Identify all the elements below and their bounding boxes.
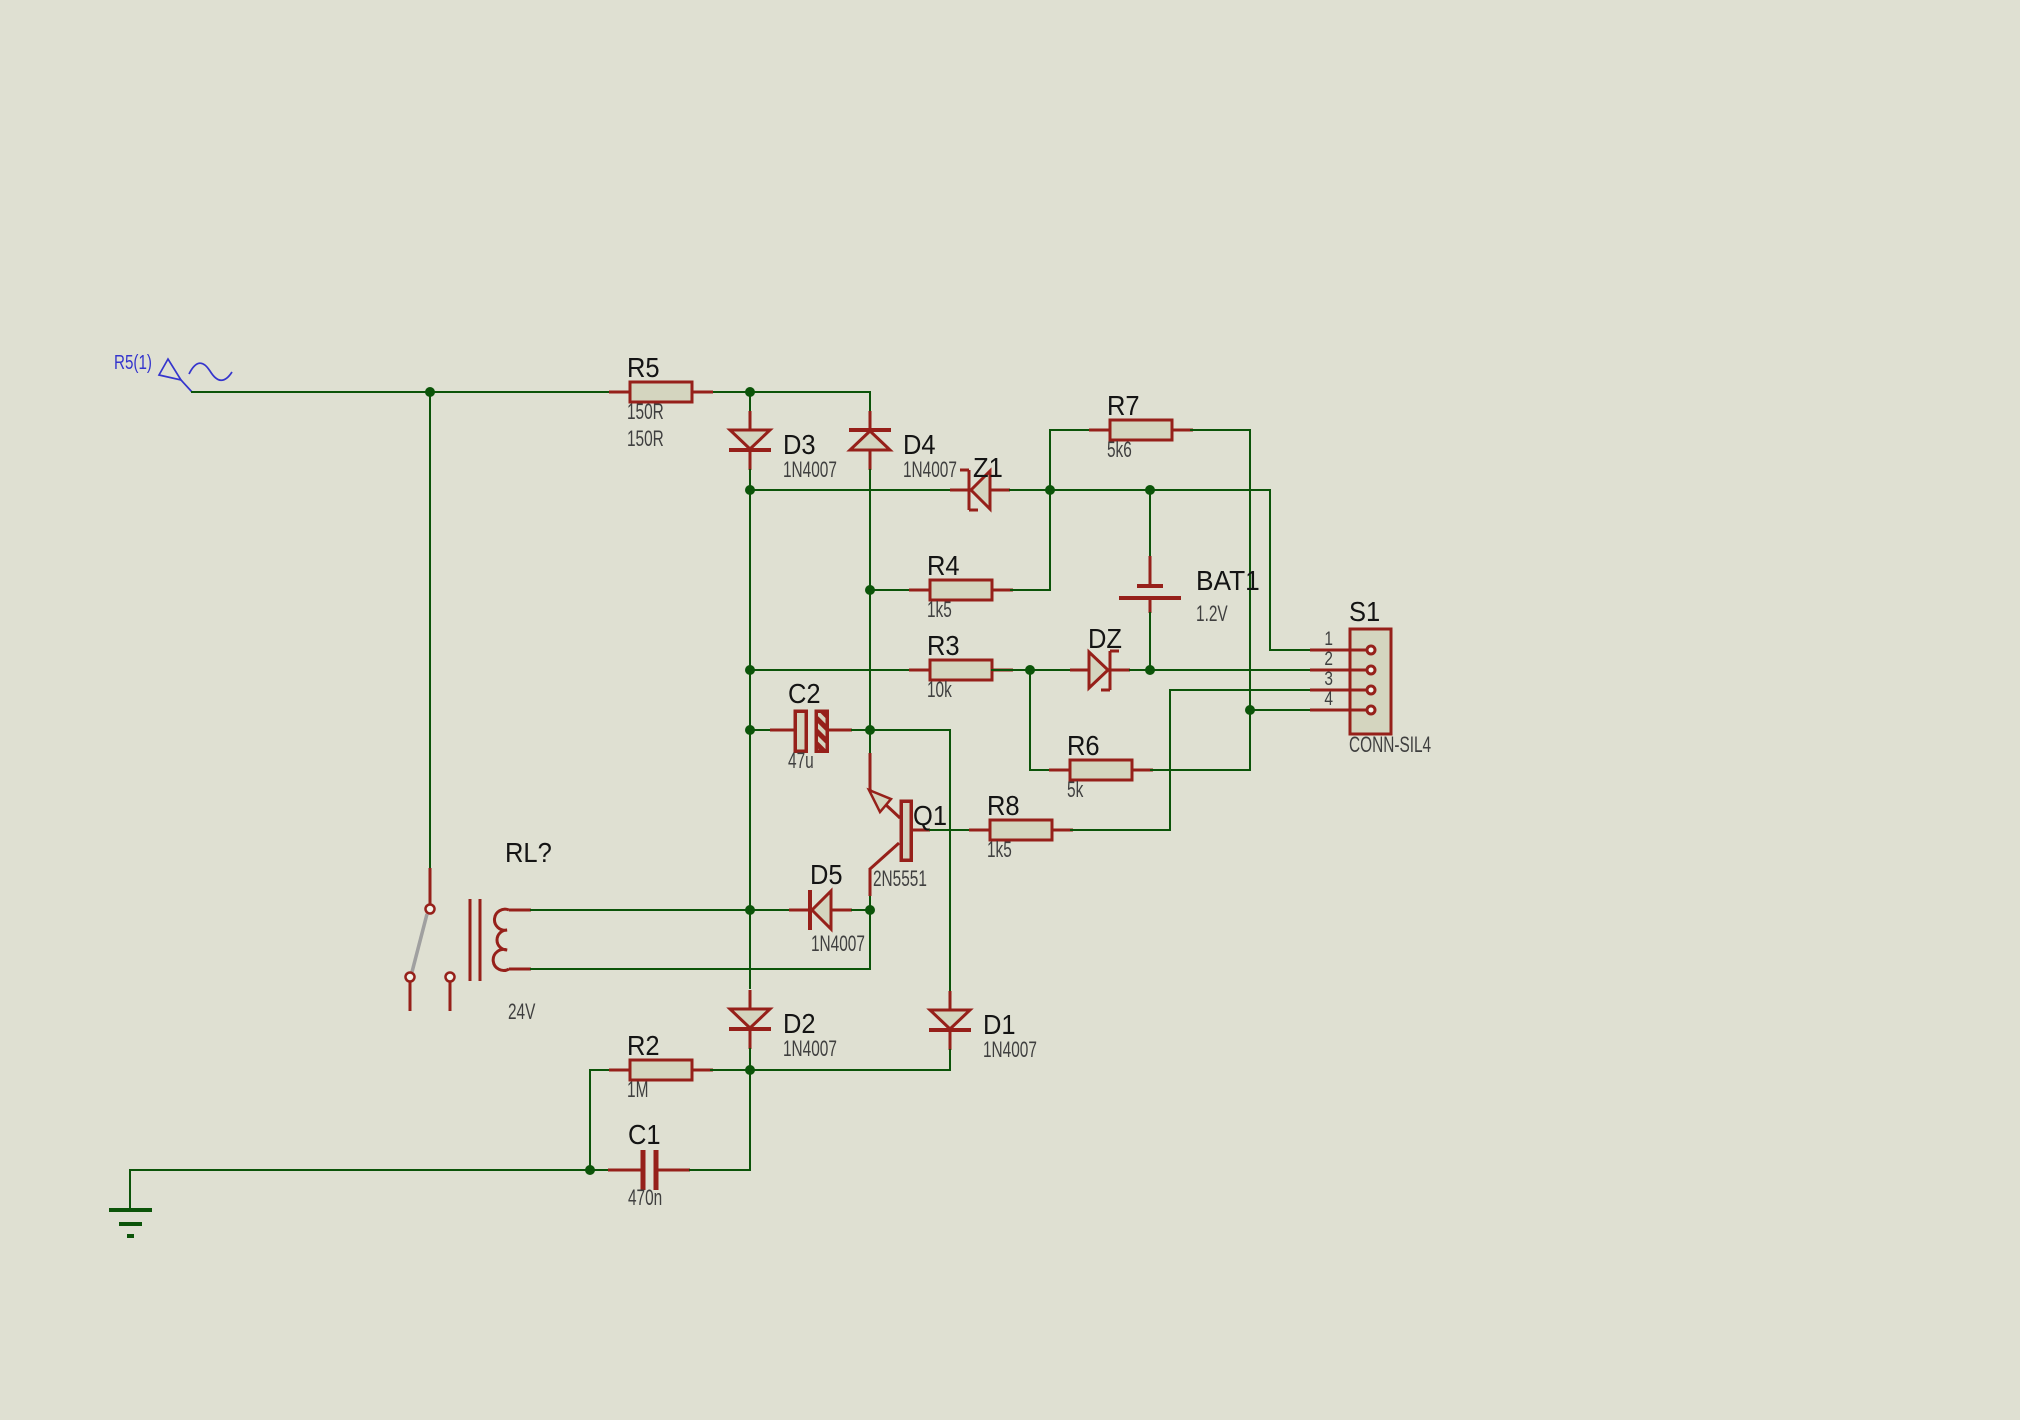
wire R3 junction down to R6 [1029,670,1031,770]
svg-text:1k5: 1k5 [987,837,1012,862]
wire R2 left corner [590,1069,610,1071]
wire D1 to R2 node [750,1069,950,1071]
wire C2 node to Q1 emitter [869,730,871,753]
wire node to BAT1 plus [1149,490,1151,556]
svg-text:CONN-SIL4: CONN-SIL4 [1349,732,1431,757]
junction R2 right node [745,1065,755,1075]
diode D2 [729,990,837,1061]
wire junction to DZ [1030,669,1070,671]
svg-text:1N4007: 1N4007 [783,457,837,482]
junction R3 right node [1025,665,1035,675]
relay coil RL? [470,837,552,1024]
wire D4 bottom to R4 node [869,470,871,590]
svg-text:R5(1): R5(1) [114,352,152,374]
wire D3 node to D4 corner [750,391,870,393]
svg-text:1N4007: 1N4007 [811,931,865,956]
wire D1 bottom lead [949,1050,951,1070]
diode D1 [929,991,1037,1062]
svg-text:5k: 5k [1067,777,1084,802]
svg-text:150R: 150R [627,399,664,424]
svg-text:R6: R6 [1067,730,1100,761]
wire D4 top lead [869,392,871,411]
wire up to S1 pin 3 row [1169,690,1171,830]
svg-text:1N4007: 1N4007 [783,1036,837,1061]
svg-text:1.2V: 1.2V [1196,601,1228,626]
svg-text:10k: 10k [927,677,952,702]
wire pin4 node to S1 pin 4 [1250,709,1310,711]
capacitor C1 [608,1119,690,1210]
svg-text:D5: D5 [810,859,843,890]
wire R7 right vertical down to pin4 node [1249,430,1251,710]
wire DZ to BAT1 node [1130,669,1150,671]
wire down to S1 pin 1 [1269,490,1271,650]
wire R5 to D3 node [711,391,750,393]
junction C1 left node [585,1165,595,1175]
svg-text:R3: R3 [927,630,960,661]
wire up to R2/D2/D1 node [749,1070,751,1170]
svg-text:C2: C2 [788,678,821,709]
wire R8 to pin3 vertical [1071,829,1170,831]
svg-text:5k6: 5k6 [1107,437,1132,462]
svg-text:D4: D4 [903,429,936,460]
svg-text:3: 3 [1324,669,1333,690]
capacitor C2 [770,678,852,773]
wire C1 left lead [590,1169,608,1171]
wire R4 node down to C2 node [869,590,871,730]
svg-text:D1: D1 [983,1009,1016,1040]
diode D4 [849,411,957,482]
wire coil bottom row [531,968,870,970]
relay switch contact [406,868,455,1011]
junction S1 pin4 node [1245,705,1255,715]
wire Q1 collector to D5 node [869,897,871,910]
junction BAT1 bottom node [1145,665,1155,675]
wire to S1 pin 1 [1270,649,1310,651]
wire C1 node to ground [130,1169,590,1171]
wire to S1 pin 2 [1150,669,1310,671]
resistor R7 [1089,390,1193,462]
node R5(1) input generator symbol [159,359,232,392]
svg-text:47u: 47u [788,748,814,773]
wire D4 node to R4 [870,589,911,591]
wire to S1 pin 3 [1170,689,1310,691]
svg-text:24V: 24V [508,999,536,1024]
svg-text:D2: D2 [783,1008,816,1039]
wire R3 node down to C2 node [749,670,751,730]
wire R2 to node [711,1069,750,1071]
diode D3 [729,411,837,482]
transistor Q1 [869,753,947,896]
junction D5 left node [745,905,755,915]
junction R5 input node [425,387,435,397]
wire input to junction [192,391,430,393]
junction C2 right node [865,725,875,735]
wire D5 left lead [750,909,789,911]
svg-text:2N5551: 2N5551 [873,866,927,891]
junction R4 left node [865,585,875,595]
wire to R6 [1030,769,1050,771]
svg-text:R4: R4 [927,550,960,581]
svg-text:DZ: DZ [1088,623,1122,654]
wire to R7 [1050,429,1090,431]
wire Q1 base to R8 [930,829,968,831]
svg-text:1k5: 1k5 [927,597,952,622]
svg-text:D3: D3 [783,429,816,460]
wire R4 to vertical [1011,589,1050,591]
wire C2 to D4 vertical [852,729,870,731]
wire down to D1 [949,730,951,990]
connector S1 CONN-SIL4 [1310,596,1431,757]
wire junction to R5 [430,391,609,393]
svg-text:Z1: Z1 [973,452,1003,483]
svg-text:R2: R2 [627,1030,660,1061]
battery BAT1 [1119,556,1260,626]
wire to C2 [750,729,770,731]
svg-text:C1: C1 [628,1119,661,1150]
wire D2 to R2 node [749,1049,751,1070]
diode D5 [789,859,865,956]
ground [109,1210,152,1236]
wire coil bottom up to D5 right node [869,910,871,969]
svg-text:R8: R8 [987,790,1020,821]
resistor R8 [969,790,1073,862]
resistor R3 [909,630,1013,702]
wire D3 top lead [749,392,751,411]
wire D3 node down to R3 row [749,490,751,670]
wire D5 to collector node [852,909,870,911]
resistor R5 [609,352,713,451]
resistor R4 [909,550,1013,622]
wire R6 to right vertical [1151,769,1250,771]
wire C1 to vertical [690,1169,750,1171]
wire pin4 node down to R6 right [1249,710,1251,770]
diode DZ [1070,623,1130,690]
svg-text:S1: S1 [1349,596,1380,627]
wire D3 bottom lead [749,470,751,490]
junction D5 right node [865,905,875,915]
svg-text:1N4007: 1N4007 [983,1037,1037,1062]
svg-text:Q1: Q1 [913,800,947,831]
svg-text:1N4007: 1N4007 [903,457,957,482]
wire C2 node down to D5 node [749,730,751,910]
resistor R6 [1049,730,1153,802]
svg-text:1M: 1M [627,1077,648,1102]
wire coil top to D5 node [531,909,750,911]
wire R7 left vertical to R4 right [1049,430,1051,590]
wire R5 junction down to switch [429,392,431,868]
wire D5 node down to D2 [749,910,751,988]
wire Z1 cathode to pin1 corner [1010,489,1270,491]
svg-text:BAT1: BAT1 [1196,565,1260,596]
junction D3 bottom node [745,485,755,495]
junction C2 left node [745,725,755,735]
wire R3 to junction [992,669,1030,671]
junction D3 top node [745,387,755,397]
svg-text:1: 1 [1324,629,1333,650]
wire down to ground [129,1170,131,1210]
resistor R2 [609,1030,713,1102]
zener diode Z1 [950,452,1010,510]
wire D3 node to Z1 anode [750,489,950,491]
wire R7 to right vertical [1191,429,1250,431]
wire C2 node to D1 vertical [870,729,950,731]
svg-text:4: 4 [1324,689,1333,710]
junction R7 left node [1045,485,1055,495]
svg-text:RL?: RL? [505,837,552,868]
svg-text:R5: R5 [627,352,660,383]
svg-text:470n: 470n [628,1185,662,1210]
wire to R3 [750,669,910,671]
junction BAT1 top node [1145,485,1155,495]
svg-text:150R: 150R [627,426,664,451]
svg-text:R7: R7 [1107,390,1140,421]
wire BAT1 minus to pin2 row [1149,613,1151,670]
svg-text:2: 2 [1324,649,1333,670]
junction R3 left node [745,665,755,675]
wire R2 left down to C1 node [589,1070,591,1170]
